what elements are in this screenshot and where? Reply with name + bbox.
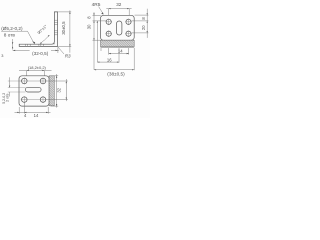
left dim line B — [96, 21, 98, 62]
hole top-left — [106, 19, 111, 24]
bend band (hatched section) — [101, 40, 135, 46]
plan bottom dim text 14 — [34, 113, 39, 118]
svg-text:14: 14 — [34, 113, 39, 118]
R3 leader — [58, 47, 64, 54]
svg-text:20: 20 — [141, 25, 146, 30]
plan bottom dim arrowheads — [17, 112, 19, 113]
hole center marks front view — [105, 19, 131, 38]
lower dim 16 line — [97, 61, 119, 63]
lower dim 16 arrowheads — [97, 62, 99, 63]
hole note text line 2 — [4, 32, 16, 37]
lower dim 38 extension line — [133, 48, 135, 70]
svg-text:(18,2±0,2): (18,2±0,2) — [28, 65, 47, 70]
left chain arrowheads — [93, 13, 94, 15]
plan top dim line — [19, 69, 52, 71]
thickness dim line — [12, 39, 14, 50]
svg-text:2 отв: 2 отв — [6, 93, 10, 101]
right dim chain extension lines — [132, 9, 149, 38]
plan bottom dim text 4 — [24, 113, 27, 118]
svg-text:(38±0,5): (38±0,5) — [107, 72, 125, 77]
thickness arrowheads — [12, 42, 13, 44]
note leader wire — [28, 31, 35, 43]
lower dim 14 extension lines — [101, 48, 129, 55]
hole bottom-right — [126, 31, 131, 36]
lower dim 38 text — [107, 72, 125, 77]
plan right dim 2 arrowheads — [66, 81, 67, 83]
svg-text:30: 30 — [87, 24, 92, 29]
plan left text col 1 — [2, 93, 6, 104]
right chain text 20 — [141, 25, 146, 30]
hole note text line 1 — [1, 26, 23, 31]
svg-text:16: 16 — [107, 57, 112, 62]
lower dim 38 arrowheads — [94, 69, 96, 70]
lower dim 38 line — [94, 69, 134, 71]
4R5 leader — [99, 7, 103, 14]
height dim arrowheads — [69, 12, 70, 14]
plan right dim 1 text — [57, 87, 62, 92]
length dim (32-0,5) line — [13, 47, 59, 53]
central slot — [117, 21, 122, 35]
plan hole top-right — [40, 78, 46, 84]
top dim 32 text — [116, 2, 122, 7]
left dim B arrowhead — [97, 21, 98, 23]
svg-text:3: 3 — [1, 53, 3, 58]
svg-text:30±0,5: 30±0,5 — [61, 21, 66, 35]
angle arc arrowheads — [40, 42, 42, 44]
plan hole top-left — [22, 78, 28, 84]
svg-text:32: 32 — [57, 87, 62, 92]
plan bottom dim line — [15, 111, 51, 113]
note underline — [1, 30, 27, 32]
lower dim 16 extension line — [118, 48, 120, 63]
plan plate — [19, 76, 49, 106]
plan bottom dim extension lines — [19, 103, 48, 114]
lower dim 14 arrowheads — [109, 53, 111, 54]
hole center lines plan view — [21, 78, 47, 103]
plan top dim arrowheads (outside) — [27, 70, 29, 71]
top dim 32 arrowheads — [109, 8, 111, 9]
angle 90 text — [37, 24, 48, 35]
thickness text 3 — [1, 53, 3, 58]
left chain text 30 — [87, 24, 92, 29]
hole section ticks in vertical leg — [54, 20, 57, 35]
plan left dim extension lines — [8, 81, 26, 92]
plan right dim 1 extension lines — [51, 74, 59, 108]
lower dim 14 text — [118, 49, 123, 54]
right chain text 8 — [141, 17, 146, 20]
plan left dim arrowhead — [9, 86, 10, 88]
hole section ticks in horizontal leg — [25, 44, 43, 46]
4R5 leader arrowhead — [101, 12, 103, 14]
plan right dim 1 arrowheads — [56, 76, 57, 78]
length dim text — [32, 51, 49, 56]
fillet corner accent — [52, 41, 55, 44]
angle arc — [40, 35, 49, 43]
flange plate front view — [101, 15, 135, 40]
plan bend band (hatched) — [49, 76, 54, 106]
plan top dim text — [28, 65, 47, 70]
svg-text:(Ø5,2-0,2): (Ø5,2-0,2) — [1, 26, 23, 31]
left chain text 8 — [87, 16, 92, 19]
svg-text:4R5: 4R5 — [92, 2, 101, 8]
lower dim 16 text — [107, 57, 112, 62]
top dim 32 extension lines — [109, 9, 130, 16]
svg-text:14: 14 — [118, 49, 123, 54]
band outer face line — [101, 47, 135, 49]
plan left dim lower stub — [9, 92, 11, 97]
note leader arrowhead — [32, 41, 35, 44]
plan hole bottom-right — [40, 97, 46, 103]
plan left text col 2 — [6, 93, 10, 101]
plan top dim extension lines — [27, 71, 45, 78]
hole top-right — [126, 19, 131, 24]
angle profile (L-section outline) — [19, 12, 57, 47]
svg-text:32: 32 — [116, 2, 122, 7]
hole bottom-left — [106, 31, 111, 36]
height dim extension lines — [58, 10, 71, 52]
svg-text:(32-0,5): (32-0,5) — [32, 51, 49, 56]
R3 text — [65, 53, 71, 58]
plan left dim line — [9, 77, 11, 87]
svg-text:8 отв: 8 отв — [4, 32, 16, 37]
svg-text:R3: R3 — [65, 53, 71, 58]
lower dim 14 line — [109, 53, 129, 55]
left dim chain extension lines — [93, 12, 107, 69]
plan right dim 2 extension lines — [46, 79, 68, 101]
length dim arrowheads — [13, 50, 15, 51]
height dim text — [61, 21, 66, 35]
plan central slot — [25, 87, 41, 92]
top dim 32 line — [106, 8, 131, 10]
plan hole bottom-left — [22, 97, 28, 103]
corner note 4R5 — [92, 2, 101, 8]
right chain arrowheads — [147, 13, 148, 15]
